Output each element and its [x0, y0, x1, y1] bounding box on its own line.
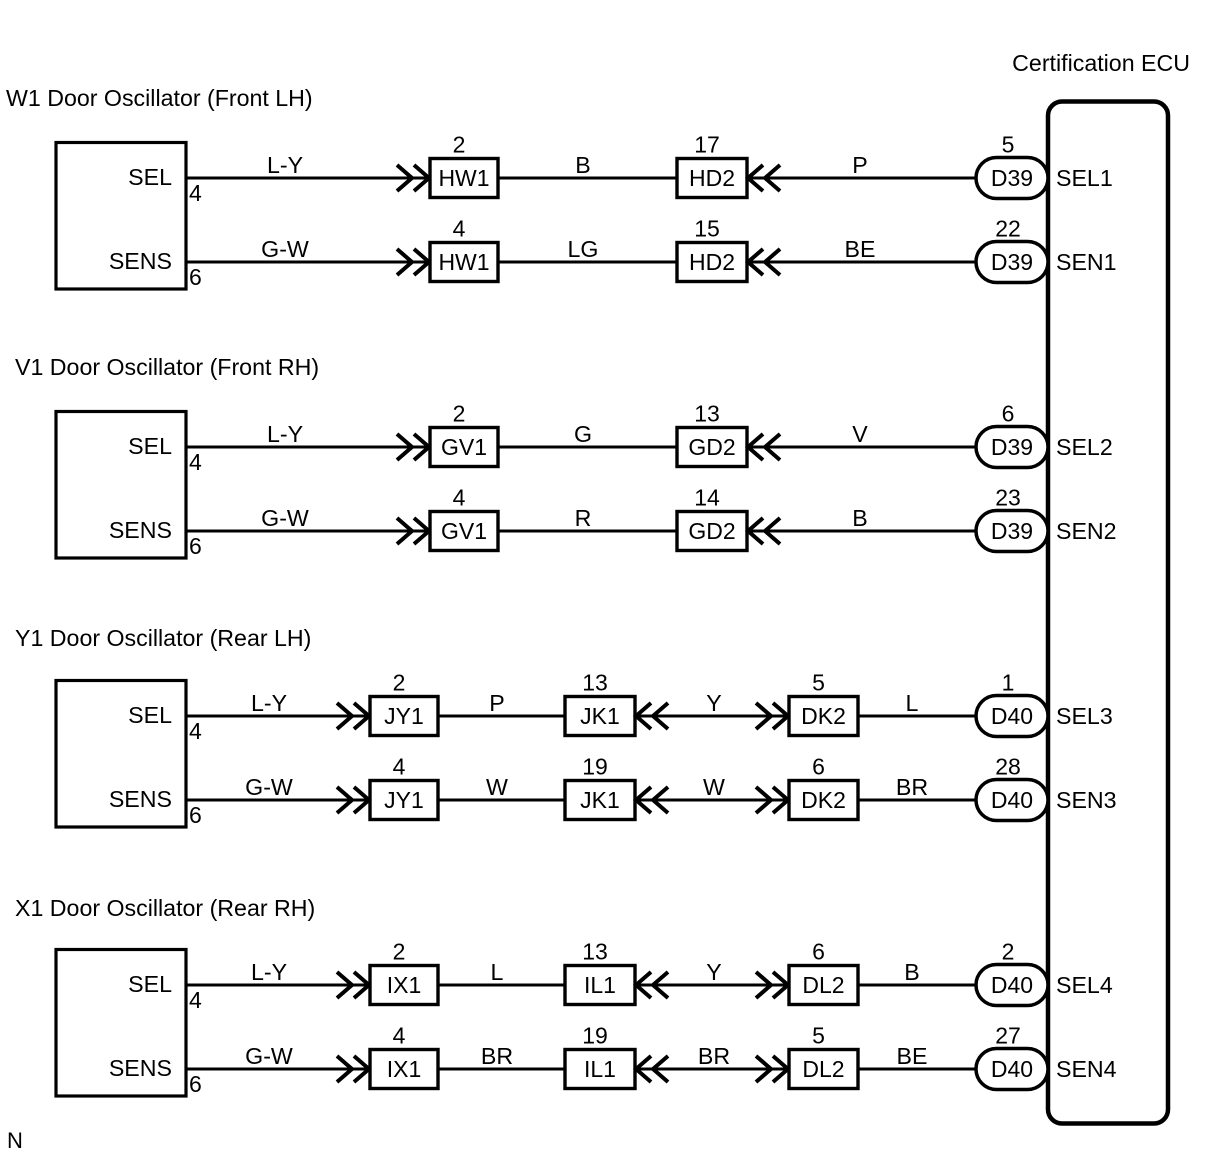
connector arrows out of GD2 — [748, 434, 780, 460]
svg-text:P: P — [489, 690, 504, 716]
svg-text:D39: D39 — [991, 249, 1033, 275]
svg-text:DL2: DL2 — [802, 1056, 844, 1082]
svg-text:L-Y: L-Y — [251, 959, 287, 985]
svg-text:B: B — [904, 959, 919, 985]
svg-text:V1 Door Oscillator (Front RH): V1 Door Oscillator (Front RH) — [15, 354, 319, 380]
svg-text:2: 2 — [1002, 939, 1015, 965]
svg-text:SEN4: SEN4 — [1056, 1056, 1117, 1082]
connector GV1 pin 4 — [430, 485, 498, 551]
svg-text:1: 1 — [1002, 670, 1015, 696]
svg-text:HD2: HD2 — [689, 249, 735, 275]
connector arrows out of IL1 — [636, 1056, 668, 1082]
wire Y1 SENS to JY1 — [186, 799, 370, 802]
svg-text:L-Y: L-Y — [267, 421, 303, 447]
svg-text:IL1: IL1 — [584, 972, 616, 998]
svg-text:GD2: GD2 — [688, 434, 735, 460]
connector JK1 pin 13 — [565, 670, 635, 736]
svg-text:HW1: HW1 — [438, 165, 489, 191]
wire X1 SENS IL1 to DL2 — [635, 1068, 789, 1071]
svg-text:BR: BR — [698, 1043, 730, 1069]
svg-text:4: 4 — [189, 718, 202, 744]
svg-text:4: 4 — [453, 485, 466, 511]
connector GV1 pin 2 — [430, 401, 498, 467]
wire V1 SENS GV1 to GD2 — [498, 530, 677, 533]
wire W1 SENS HD2 to D39 — [747, 261, 976, 264]
ECU Certification ECU box — [1048, 102, 1168, 1124]
svg-text:28: 28 — [995, 754, 1021, 780]
svg-text:6: 6 — [189, 533, 202, 559]
device Y1 Door Oscillator box — [56, 681, 186, 828]
connector D40 pin 1 — [976, 670, 1048, 737]
svg-text:SEL1: SEL1 — [1056, 165, 1113, 191]
svg-text:13: 13 — [582, 939, 608, 965]
wire Y1 SENS JK1 to DK2 — [635, 799, 789, 802]
wire X1 SENS IX1 to IL1 — [438, 1068, 565, 1071]
connector IL1 pin 13 — [565, 939, 635, 1005]
connector IX1 pin 2 — [370, 939, 438, 1005]
svg-text:14: 14 — [694, 485, 720, 511]
connector GD2 pin 13 — [677, 401, 747, 467]
svg-text:G-W: G-W — [245, 1043, 293, 1069]
connector arrows into DL2 — [756, 972, 788, 998]
svg-text:4: 4 — [453, 216, 466, 242]
connector D40 pin 2 — [976, 939, 1048, 1006]
svg-text:BR: BR — [896, 774, 928, 800]
svg-text:6: 6 — [189, 802, 202, 828]
svg-text:JY1: JY1 — [384, 703, 424, 729]
svg-text:V: V — [852, 421, 868, 447]
svg-text:SEL: SEL — [128, 971, 172, 997]
svg-text:SEL3: SEL3 — [1056, 703, 1113, 729]
connector D39 pin 23 — [976, 485, 1048, 552]
svg-text:GV1: GV1 — [441, 434, 487, 460]
connector arrows into GV1 — [397, 518, 429, 544]
connector arrows into DL2 — [756, 1056, 788, 1082]
svg-text:JY1: JY1 — [384, 787, 424, 813]
connector arrows into DK2 — [756, 703, 788, 729]
svg-text:BE: BE — [845, 236, 876, 262]
connector arrows out of JK1 — [636, 787, 668, 813]
svg-text:SEN3: SEN3 — [1056, 787, 1117, 813]
svg-text:4: 4 — [189, 180, 202, 206]
svg-text:Certification ECU: Certification ECU — [1012, 50, 1190, 76]
connector D39 pin 6 — [976, 401, 1048, 468]
svg-text:G-W: G-W — [261, 236, 309, 262]
svg-text:W: W — [486, 774, 508, 800]
svg-text:GD2: GD2 — [688, 518, 735, 544]
svg-text:X1 Door Oscillator (Rear RH): X1 Door Oscillator (Rear RH) — [15, 895, 315, 921]
wire W1 SEL to HW1 — [186, 177, 430, 180]
svg-text:BR: BR — [481, 1043, 513, 1069]
wire V1 SEL to GV1 — [186, 446, 430, 449]
svg-text:15: 15 — [694, 216, 720, 242]
svg-text:SEL2: SEL2 — [1056, 434, 1113, 460]
connector HD2 pin 17 — [677, 132, 747, 198]
svg-text:JK1: JK1 — [580, 787, 620, 813]
svg-text:L-Y: L-Y — [251, 690, 287, 716]
svg-text:27: 27 — [995, 1023, 1021, 1049]
connector arrows into IX1 — [337, 1056, 369, 1082]
svg-text:SEL: SEL — [128, 702, 172, 728]
connector DK2 pin 6 — [789, 754, 858, 820]
wire Y1 SENS DK2 to D40 — [858, 799, 976, 802]
svg-text:SENS: SENS — [109, 517, 172, 543]
svg-text:SEN1: SEN1 — [1056, 249, 1117, 275]
svg-text:JK1: JK1 — [580, 703, 620, 729]
svg-text:SENS: SENS — [109, 248, 172, 274]
connector DL2 pin 6 — [789, 939, 858, 1005]
wire W1 SENS HW1 to HD2 — [498, 261, 677, 264]
wire W1 SEL HW1 to HD2 — [498, 177, 677, 180]
svg-text:L: L — [906, 690, 919, 716]
svg-text:19: 19 — [582, 754, 608, 780]
svg-text:19: 19 — [582, 1023, 608, 1049]
svg-text:SENS: SENS — [109, 1055, 172, 1081]
connector arrows into HW1 — [397, 165, 429, 191]
connector D40 pin 28 — [976, 754, 1048, 821]
connector GD2 pin 14 — [677, 485, 747, 551]
device W1 Door Oscillator box — [56, 143, 186, 290]
svg-text:4: 4 — [393, 1023, 406, 1049]
svg-text:22: 22 — [995, 216, 1021, 242]
wire Y1 SEL JY1 to JK1 — [438, 715, 565, 718]
wire X1 SEL to IX1 — [186, 984, 370, 987]
svg-text:13: 13 — [694, 401, 720, 427]
svg-text:SEL: SEL — [128, 433, 172, 459]
device X1 Door Oscillator box — [56, 950, 186, 1097]
wire V1 SEL GD2 to D39 — [747, 446, 976, 449]
svg-text:IX1: IX1 — [387, 972, 422, 998]
connector IX1 pin 4 — [370, 1023, 438, 1089]
wire V1 SENS GD2 to D39 — [747, 530, 976, 533]
svg-text:IL1: IL1 — [584, 1056, 616, 1082]
svg-text:B: B — [852, 505, 867, 531]
svg-text:DK2: DK2 — [801, 787, 846, 813]
svg-text:6: 6 — [812, 939, 825, 965]
connector HW1 pin 2 — [430, 132, 498, 198]
svg-text:D40: D40 — [991, 1056, 1033, 1082]
svg-text:HD2: HD2 — [689, 165, 735, 191]
svg-text:Y: Y — [706, 690, 721, 716]
wire X1 SEL DL2 to D40 — [858, 984, 976, 987]
svg-text:B: B — [575, 152, 590, 178]
wire V1 SENS to GV1 — [186, 530, 430, 533]
connector arrows into DK2 — [756, 787, 788, 813]
connector HW1 pin 4 — [430, 216, 498, 282]
connector arrows into JY1 — [337, 703, 369, 729]
svg-text:23: 23 — [995, 485, 1021, 511]
wire X1 SEL IL1 to DL2 — [635, 984, 789, 987]
wire X1 SENS to IX1 — [186, 1068, 370, 1071]
connector arrows into JY1 — [337, 787, 369, 813]
svg-text:P: P — [852, 152, 867, 178]
svg-text:5: 5 — [812, 670, 825, 696]
svg-text:HW1: HW1 — [438, 249, 489, 275]
svg-text:Y1 Door Oscillator (Rear LH): Y1 Door Oscillator (Rear LH) — [15, 625, 311, 651]
svg-text:4: 4 — [189, 449, 202, 475]
svg-text:L: L — [491, 959, 504, 985]
svg-text:R: R — [575, 505, 592, 531]
connector IL1 pin 19 — [565, 1023, 635, 1089]
svg-text:2: 2 — [453, 132, 466, 158]
svg-text:IX1: IX1 — [387, 1056, 422, 1082]
svg-text:D40: D40 — [991, 972, 1033, 998]
svg-text:SEL: SEL — [128, 164, 172, 190]
svg-text:G-W: G-W — [245, 774, 293, 800]
connector D39 pin 5 — [976, 132, 1048, 199]
svg-text:W1 Door Oscillator (Front LH): W1 Door Oscillator (Front LH) — [6, 85, 313, 111]
connector DL2 pin 5 — [789, 1023, 858, 1089]
connector D39 pin 22 — [976, 216, 1048, 283]
connector arrows out of HD2 — [748, 249, 780, 275]
svg-text:6: 6 — [1002, 401, 1015, 427]
svg-text:6: 6 — [812, 754, 825, 780]
svg-text:13: 13 — [582, 670, 608, 696]
connector JK1 pin 19 — [565, 754, 635, 820]
svg-text:5: 5 — [812, 1023, 825, 1049]
svg-text:4: 4 — [189, 987, 202, 1013]
wire W1 SENS to HW1 — [186, 261, 430, 264]
svg-text:2: 2 — [393, 939, 406, 965]
svg-text:D39: D39 — [991, 518, 1033, 544]
connector HD2 pin 15 — [677, 216, 747, 282]
connector arrows out of JK1 — [636, 703, 668, 729]
svg-text:Y: Y — [706, 959, 721, 985]
connector arrows out of HD2 — [748, 165, 780, 191]
svg-text:5: 5 — [1002, 132, 1015, 158]
svg-text:LG: LG — [568, 236, 599, 262]
svg-text:G-W: G-W — [261, 505, 309, 531]
svg-text:D40: D40 — [991, 703, 1033, 729]
svg-text:L-Y: L-Y — [267, 152, 303, 178]
svg-text:W: W — [703, 774, 725, 800]
connector arrows into HW1 — [397, 249, 429, 275]
wire V1 SEL GV1 to GD2 — [498, 446, 677, 449]
svg-text:2: 2 — [393, 670, 406, 696]
wire Y1 SEL JK1 to DK2 — [635, 715, 789, 718]
svg-text:2: 2 — [453, 401, 466, 427]
svg-text:DK2: DK2 — [801, 703, 846, 729]
svg-text:6: 6 — [189, 1071, 202, 1097]
connector JY1 pin 2 — [370, 670, 438, 736]
svg-text:D40: D40 — [991, 787, 1033, 813]
connector arrows out of GD2 — [748, 518, 780, 544]
svg-text:SEL4: SEL4 — [1056, 972, 1113, 998]
wire X1 SEL IX1 to IL1 — [438, 984, 565, 987]
connector arrows out of IL1 — [636, 972, 668, 998]
svg-text:SENS: SENS — [109, 786, 172, 812]
connector arrows into IX1 — [337, 972, 369, 998]
wire W1 SEL HD2 to D39 — [747, 177, 976, 180]
wire Y1 SENS JY1 to JK1 — [438, 799, 565, 802]
connector JY1 pin 4 — [370, 754, 438, 820]
wire Y1 SEL DK2 to D40 — [858, 715, 976, 718]
svg-text:GV1: GV1 — [441, 518, 487, 544]
svg-text:D39: D39 — [991, 165, 1033, 191]
connector DK2 pin 5 — [789, 670, 858, 736]
wire Y1 SEL to JY1 — [186, 715, 370, 718]
svg-text:SEN2: SEN2 — [1056, 518, 1117, 544]
device V1 Door Oscillator box — [56, 412, 186, 559]
svg-text:D39: D39 — [991, 434, 1033, 460]
svg-text:DL2: DL2 — [802, 972, 844, 998]
wire X1 SENS DL2 to D40 — [858, 1068, 976, 1071]
svg-text:BE: BE — [897, 1043, 928, 1069]
svg-text:17: 17 — [694, 132, 720, 158]
svg-text:N: N — [7, 1128, 23, 1153]
svg-text:4: 4 — [393, 754, 406, 780]
svg-text:G: G — [574, 421, 592, 447]
svg-text:6: 6 — [189, 264, 202, 290]
connector D40 pin 27 — [976, 1023, 1048, 1090]
connector arrows into GV1 — [397, 434, 429, 460]
